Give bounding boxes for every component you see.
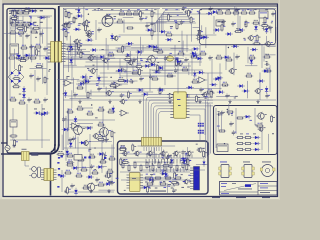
capacitor C49 [174, 68, 179, 73]
wire W49 [61, 170, 63, 192]
wire W145 [141, 185, 175, 187]
blue mark [58, 174, 60, 176]
label N59 [94, 8, 96, 11]
resistor R1 [10, 10, 18, 14]
wire W38 [190, 105, 214, 107]
wire W33 [63, 99, 276, 101]
resistor R130 [127, 91, 131, 99]
transistor Q7 [89, 68, 98, 75]
label N2 [49, 68, 51, 71]
resistor R174 [203, 150, 207, 158]
label N8 [218, 20, 221, 23]
op-amp U9 [167, 93, 177, 99]
op-amp U7 [63, 80, 73, 86]
transistor Q32 [72, 125, 85, 136]
transistor Q10 [254, 88, 263, 95]
wire W113 [197, 147, 205, 149]
label N50 [35, 32, 38, 35]
resistor R108 [10, 17, 14, 25]
wire W196 [15, 20, 23, 22]
resistor R30 [126, 27, 134, 29]
wire W11 [66, 43, 79, 45]
resistor R158 [252, 20, 260, 24]
capacitor C17 [132, 57, 137, 62]
diode D39 [153, 70, 161, 73]
transistor Q12 [82, 140, 91, 147]
resistor R31 [184, 11, 192, 13]
wire W168 [146, 22, 167, 24]
resistor R165 [175, 58, 179, 66]
diode D92 [58, 174, 66, 177]
wire W101 [68, 109, 70, 131]
isolation barrier line [58, 6, 60, 146]
wire W56 [261, 122, 263, 150]
resistor R76 [91, 170, 99, 174]
wire W52 [120, 171, 190, 173]
resistor R57 [181, 67, 189, 71]
resistor R118 [86, 19, 90, 27]
capacitor C21 [73, 92, 78, 97]
diode D56 [198, 36, 206, 39]
transistor Q9 [228, 68, 237, 75]
capacitor C33 [229, 121, 234, 126]
diode D49 [160, 172, 168, 175]
capacitor C50 [150, 177, 155, 182]
capacitor C47 [172, 188, 177, 193]
resistor R159 [188, 9, 192, 17]
wire W91 [269, 45, 276, 47]
resistor R73 [108, 156, 116, 160]
diode D99 [34, 111, 42, 114]
wire W61 [41, 29, 43, 43]
label N7 [271, 20, 273, 23]
wire W5 [30, 16, 32, 60]
label N52 [18, 33, 20, 36]
wire W148 [85, 65, 191, 67]
capacitor C7 [27, 97, 32, 102]
label N67 [165, 8, 168, 11]
transistor Q21 [86, 32, 94, 38]
label [34, 22, 37, 23]
resistor R114 [12, 84, 20, 88]
diode D9 [98, 55, 106, 58]
resistor R2 [16, 10, 24, 14]
ground [78, 100, 81, 104]
wire W172 [70, 98, 92, 100]
wire W134 [263, 46, 265, 61]
diode D41 [210, 83, 218, 86]
junction node [35, 37, 36, 38]
diode D19 [257, 79, 265, 82]
capacitor C51 [122, 159, 127, 164]
bus corner to U10 [154, 10, 195, 32]
resistor R74 [64, 170, 72, 174]
resistor R47 [215, 55, 223, 59]
wire W85 [89, 56, 100, 58]
label N33 [205, 95, 208, 98]
resistor R124 [152, 47, 160, 51]
wire W103 [77, 123, 93, 125]
resistor R20 [9, 135, 17, 137]
wire W4 [22, 16, 24, 60]
resistor R68 [111, 130, 115, 138]
wire W197 [158, 166, 173, 168]
diode D65 [74, 116, 77, 124]
resistor R56 [166, 73, 174, 77]
wire W164 [233, 53, 235, 76]
wire W118 [98, 22, 196, 24]
transistor Q29 [201, 92, 209, 98]
label N92 [151, 182, 153, 183]
diode D50 [142, 186, 150, 189]
AC mains line 2 [1, 142, 7, 144]
op-amp U8 [112, 82, 122, 88]
wire W154 [85, 74, 87, 93]
label N96 [176, 182, 178, 183]
wire W30 [225, 45, 227, 70]
diode D91 [262, 69, 270, 72]
label N25 [95, 116, 98, 119]
wire W166 [259, 73, 261, 101]
resistor R8 [17, 30, 25, 34]
resistor R15 [29, 55, 37, 59]
transistor Q23 [113, 35, 121, 41]
wire W124 [120, 75, 176, 77]
resistor R58 [191, 79, 199, 83]
capacitor C55 [181, 150, 186, 155]
resistor R35 [240, 10, 248, 14]
capacitor C2 [39, 31, 44, 36]
wire W126 [89, 91, 153, 93]
wire W12 [66, 46, 83, 48]
wire W3 [9, 16, 11, 100]
diode D80 [69, 57, 72, 65]
label N86 [166, 174, 168, 177]
resistor R90 [182, 161, 184, 169]
capacitor C39 [120, 93, 125, 98]
wire W21 [95, 20, 97, 40]
diode D21 [203, 159, 206, 166]
wire W169 [201, 25, 203, 32]
diode D16 [182, 94, 190, 97]
wire W29 [199, 45, 201, 66]
diode D89 [217, 90, 225, 93]
wire W26 [107, 45, 109, 70]
wire W105 [77, 126, 93, 128]
IC U1 [10, 44, 19, 54]
resistor R34 [232, 10, 240, 14]
diode D77 [151, 45, 159, 48]
resistor R146 [119, 146, 127, 150]
blue mark [176, 58, 179, 61]
resistor R3 [22, 10, 30, 14]
resistor R14 [22, 55, 30, 59]
power transistor Q_SW [102, 16, 116, 27]
label N36 [188, 17, 190, 20]
wire W107 [113, 137, 115, 156]
label N23 [139, 89, 141, 92]
label N14 [170, 52, 172, 55]
resistor R71 [88, 154, 96, 158]
resistor R65 [97, 107, 105, 111]
resistor R162 [124, 56, 132, 60]
wire W77 [131, 47, 152, 49]
junction node [152, 163, 153, 164]
resistor R113 [19, 64, 23, 72]
diode D4 [206, 12, 214, 15]
wire W151 [98, 88, 222, 90]
wire W158 [149, 69, 151, 91]
resistor R153 [104, 14, 112, 18]
wire W186 [268, 134, 270, 153]
ground [64, 189, 67, 193]
capacitor C8 [43, 97, 48, 102]
blue mark [61, 156, 63, 158]
capacitor C32 [220, 110, 225, 115]
wire W150 [77, 80, 138, 82]
diode D83 [250, 48, 258, 51]
wire W198 [196, 163, 207, 165]
resistor R22 [68, 21, 72, 29]
wire W137 [89, 134, 91, 179]
label [22, 10, 25, 11]
footer text [212, 197, 220, 198]
wire W161 [191, 51, 193, 76]
wire W51 [120, 157, 205, 159]
wire W8 [12, 108, 14, 140]
resistor R24 [118, 11, 126, 15]
resistor R86 [158, 161, 160, 169]
wire W152 [68, 95, 146, 97]
transistor Q16 [159, 150, 167, 156]
resistor R9 [30, 29, 38, 33]
label N63 [128, 8, 130, 11]
inductor L1 [32, 153, 39, 156]
label N9 [197, 10, 199, 13]
ground [198, 100, 201, 104]
resistor R4 [10, 22, 18, 26]
diode D70 [223, 56, 231, 59]
resistor R77 [104, 173, 112, 177]
blue mark [58, 157, 60, 159]
junction node [88, 14, 89, 15]
label N55 [107, 179, 109, 182]
label cluster [9, 11, 12, 12]
capacitor C35 [182, 6, 187, 11]
wire W64 [42, 63, 44, 84]
wire W55 [235, 108, 237, 134]
wire W178 [75, 44, 92, 46]
wire W128 [96, 55, 98, 78]
capacitor C1 [25, 33, 30, 38]
wire W92 [71, 90, 73, 108]
scan margin bottom [0, 199, 280, 200]
capacitor C40 [149, 74, 154, 79]
capacitor C12 [97, 27, 102, 32]
resistor R133 [117, 77, 125, 81]
junction node [272, 133, 273, 134]
diode D17 [213, 77, 221, 80]
pin hatch row 3 [150, 168, 184, 172]
wire W110 [154, 148, 156, 164]
label N68 [176, 8, 179, 11]
resistor R42 [116, 48, 124, 52]
diode D90 [242, 89, 250, 92]
wire W176 [188, 63, 190, 75]
diode D51 [180, 157, 188, 160]
label [11, 10, 14, 11]
label N98 [189, 181, 191, 182]
resistor R157 [165, 32, 173, 36]
wire W15 [66, 53, 95, 55]
resistor R12 [8, 55, 16, 59]
wire W70 [270, 27, 272, 34]
scan margin top [0, 0, 280, 3]
wire W127 [66, 22, 68, 40]
resistor R50 [263, 54, 271, 58]
resistor R25 [125, 11, 133, 15]
transistor Q33 [98, 127, 111, 138]
wire W155 [103, 55, 105, 87]
isolation barrier corner 2 [51, 144, 55, 152]
resistor R23 [73, 16, 77, 24]
wire W119 [119, 34, 217, 36]
logic box label [150, 191, 166, 192]
resistor R144 [187, 158, 191, 166]
label N99 [148, 187, 151, 188]
junction node [227, 109, 228, 110]
diode D36 [69, 44, 72, 52]
wire W133 [237, 9, 239, 32]
diode D58 [149, 63, 157, 66]
capacitor C58 [64, 21, 69, 26]
diode D14 [143, 64, 151, 67]
resistor R160 [199, 29, 203, 37]
transistor Q30 [127, 60, 135, 66]
wire W199 [41, 104, 43, 148]
resistor R100 [218, 130, 226, 132]
blue mark [84, 157, 86, 159]
transformer T1 [48, 42, 66, 62]
resistor R138 [103, 153, 107, 161]
label N57 [75, 8, 77, 11]
capacitor C4 [43, 46, 48, 51]
resistor R40 [76, 50, 84, 54]
wire W181 [186, 147, 188, 167]
resistor R59 [206, 89, 214, 93]
label N64 [137, 8, 140, 11]
wire W104 [80, 107, 93, 109]
wire W132 [211, 59, 213, 83]
wire W66 [123, 20, 125, 33]
label N6 [243, 37, 245, 40]
resistor R112 [19, 57, 27, 61]
wire W138 [101, 135, 103, 173]
schematic frame [3, 4, 278, 197]
transistor Q2 [85, 30, 94, 37]
transistor Q34 [86, 182, 98, 192]
capacitor C14 [221, 19, 226, 24]
label [40, 10, 43, 11]
op-amp U13 [119, 110, 129, 116]
diode D15 [157, 88, 165, 91]
resistor R126 [78, 43, 82, 51]
connector J3 [242, 162, 254, 178]
wire W131 [181, 31, 183, 53]
wire W25 [74, 45, 76, 65]
transistor Q8 [105, 90, 114, 97]
junction node [63, 93, 64, 94]
label N95 [169, 181, 171, 182]
line filter FL1 [22, 149, 30, 161]
wire W191 [100, 166, 107, 168]
label N15 [102, 48, 104, 51]
capacitor C10 [145, 23, 150, 28]
label N93 [160, 182, 162, 183]
resistor R26 [132, 11, 140, 15]
resistor R139 [108, 171, 112, 179]
diode D25 [38, 16, 46, 19]
resistor R53 [131, 70, 139, 74]
ground [138, 100, 141, 104]
label N87 [175, 174, 177, 177]
label N3 [12, 144, 15, 147]
label N30 [185, 152, 187, 155]
wire W6 [39, 16, 41, 60]
wire W180 [152, 69, 173, 71]
wire W130 [157, 9, 159, 50]
diode D43 [79, 141, 87, 144]
diode D68 [159, 30, 167, 33]
label N91 [145, 182, 147, 183]
label N34 [74, 17, 77, 20]
label N37 [170, 25, 173, 28]
label N51 [16, 53, 18, 56]
resistor R69 [66, 153, 74, 157]
wire W167 [269, 65, 271, 92]
label N19 [66, 75, 69, 78]
resistor R148 [147, 185, 151, 193]
diode D75 [110, 33, 113, 41]
diode D53 [164, 171, 167, 179]
label N94 [163, 181, 165, 182]
wire W100 [246, 81, 248, 98]
label N11 [245, 21, 247, 24]
blue mark [58, 168, 60, 170]
label N74 [228, 8, 230, 11]
resistor R49 [248, 55, 256, 59]
capacitor C38 [265, 61, 270, 66]
capacitor C3 [29, 44, 34, 49]
capacitor C25 [225, 93, 230, 98]
resistor R80 [122, 161, 124, 169]
label N24 [235, 95, 238, 98]
label N42 [148, 65, 151, 68]
AC mains line [1, 154, 51, 196]
label N60 [100, 8, 103, 11]
capacitor C15 [231, 21, 236, 26]
title block frame [220, 182, 278, 196]
resistor R11 [34, 44, 42, 48]
transistor Q31 [183, 179, 191, 185]
wire W185 [228, 104, 230, 116]
blue mark [89, 157, 91, 159]
diode D7 [237, 28, 245, 31]
resistor R116 [35, 63, 43, 67]
diode D100 [42, 111, 50, 114]
resistor R52 [87, 91, 91, 99]
wire W98 [90, 90, 92, 96]
